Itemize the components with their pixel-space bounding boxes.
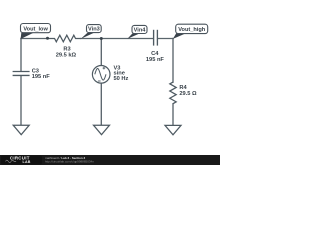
svg-text:195 nF: 195 nF (146, 57, 165, 63)
svg-text:29.5 kΩ: 29.5 kΩ (56, 53, 77, 59)
svg-text:Vin4: Vin4 (134, 28, 147, 34)
svg-text:LAB: LAB (23, 160, 31, 164)
svg-text:Vout_high: Vout_high (178, 27, 206, 33)
svg-text:195 nF: 195 nF (32, 74, 51, 80)
svg-text:Vout_low: Vout_low (23, 26, 48, 32)
svg-text:R3: R3 (63, 46, 70, 52)
svg-text:Vin3: Vin3 (88, 27, 100, 33)
svg-text:50 Hz: 50 Hz (114, 76, 129, 82)
svg-text:C4: C4 (151, 51, 159, 57)
svg-text:htip://circuitlab.com/c/qp9988: htip://circuitlab.com/c/qp998885034n (45, 160, 94, 164)
svg-text:29.5 Ω: 29.5 Ω (179, 91, 197, 97)
